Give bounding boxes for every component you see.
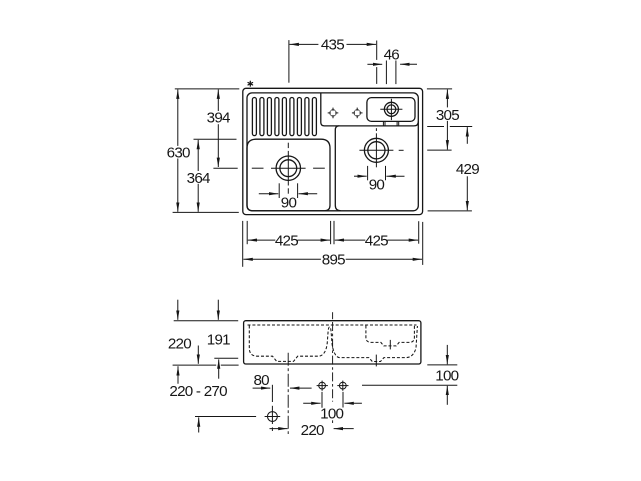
svg-text:46: 46 (384, 46, 400, 63)
front outline (244, 321, 421, 364)
svg-text:220: 220 (301, 422, 324, 439)
front tap bowl profile (366, 326, 415, 346)
svg-text:895: 895 (322, 252, 345, 269)
tap platform legs (383, 121, 398, 126)
sink outer rim (243, 88, 423, 214)
tap hole (380, 99, 402, 120)
svg-text:435: 435 (321, 37, 344, 54)
dimension 90 left (259, 183, 317, 211)
dimension 46 (367, 46, 417, 84)
svg-text:191: 191 (207, 331, 230, 348)
dimension 429 (427, 127, 479, 211)
drainboard divider and deck bottom edge (321, 93, 419, 126)
left drain (252, 143, 325, 194)
tap knockout marker right (352, 108, 363, 119)
svg-text:90: 90 (281, 195, 297, 212)
dimension 425 left (243, 221, 334, 267)
dimension 394 (207, 90, 238, 169)
svg-text:305: 305 (436, 107, 459, 124)
svg-text:220: 220 (168, 335, 191, 352)
tap knockout marker left (328, 108, 339, 119)
svg-text:429: 429 (456, 161, 479, 178)
dimension 220 front height (168, 300, 239, 365)
dimension 220 - 270 (169, 366, 227, 432)
dimension 425 right (335, 232, 418, 249)
dimension 895 (243, 221, 422, 268)
dimension 100 between tap holes (303, 403, 362, 422)
right drain (359, 128, 403, 167)
dimension 305 (427, 89, 459, 150)
dimension 100 right (427, 345, 458, 405)
drainboard ribs (252, 98, 316, 136)
tap platform (367, 98, 415, 122)
svg-text:90: 90 (369, 177, 385, 194)
front rim dashed line (248, 324, 417, 326)
svg-text:425: 425 (275, 232, 298, 249)
tap fixing hole right (337, 381, 348, 408)
tap hole row line (362, 384, 457, 386)
sink inner rim (247, 93, 418, 211)
svg-text:100: 100 (435, 367, 458, 384)
tap fixing hole left (317, 381, 328, 408)
svg-text:425: 425 (365, 232, 388, 249)
front right bowl drain tick (375, 355, 377, 367)
svg-text:80: 80 (253, 372, 269, 389)
centerline left bowl (287, 353, 289, 434)
centerline divider (332, 312, 334, 423)
mounting hole left (195, 385, 280, 431)
dimension 364 (187, 139, 237, 212)
front bowls profile (249, 326, 417, 362)
asterisk (248, 81, 253, 86)
svg-text:394: 394 (207, 110, 230, 127)
dimension 90 right (354, 166, 405, 194)
dimension 435 (289, 37, 377, 84)
dimension 191 bowl depth (207, 300, 238, 379)
svg-text:100: 100 (320, 406, 343, 423)
front tap bowl drain tick (389, 340, 391, 350)
svg-text:220 - 270: 220 - 270 (169, 383, 227, 400)
dimension 220 hole spacing (270, 422, 354, 439)
dimension 80 (253, 372, 312, 389)
dimension 630 (167, 89, 240, 212)
svg-text:630: 630 (167, 145, 190, 162)
svg-text:364: 364 (187, 170, 210, 187)
left bowl (247, 139, 330, 211)
right bowl (335, 126, 341, 211)
